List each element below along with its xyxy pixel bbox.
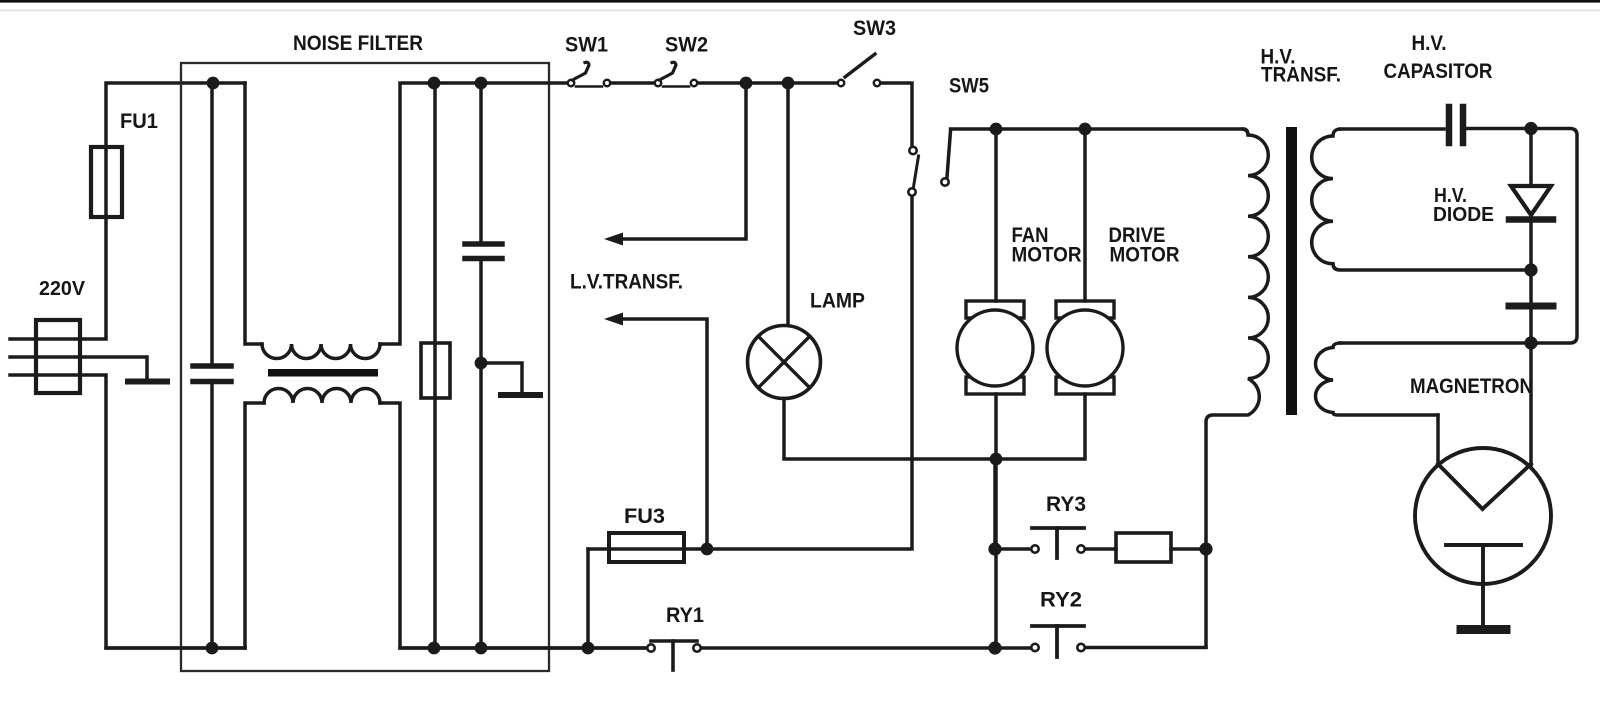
relay RY1 terminal left <box>647 644 654 651</box>
drive motor frame bottom <box>1056 377 1114 394</box>
svg-text:LAMP: LAMP <box>810 290 865 313</box>
wire choke bottom-right lead <box>380 403 646 648</box>
relay RY3 contact bar <box>1032 526 1084 530</box>
HV diode triangle <box>1511 186 1551 215</box>
svg-text:L.V.TRANSF.: L.V.TRANSF. <box>570 271 683 294</box>
220V plug body <box>36 320 80 393</box>
switch SW1 lever <box>573 62 590 80</box>
fan motor frame bottom <box>966 377 1024 394</box>
svg-text:H.V.: H.V. <box>1412 32 1447 55</box>
node junction motor rail fan <box>990 123 1003 136</box>
wire SW2 to SW3 <box>699 81 836 85</box>
capacitor C2 lead bottom <box>479 261 483 648</box>
resistor R2 body <box>1116 533 1171 562</box>
switch SW3 terminal left <box>838 80 844 86</box>
switch SW4 lever <box>914 156 919 187</box>
feedthrough capacitor bar <box>1509 303 1553 310</box>
relay RY3 terminal left <box>1031 545 1038 552</box>
svg-text:SW5: SW5 <box>949 75 989 98</box>
node junction LV transf branch top <box>740 77 753 90</box>
node junction bottom bus at x995 <box>988 641 1001 654</box>
node junction heater top rail <box>1524 336 1537 349</box>
wire choke bottom-left lead <box>245 403 264 648</box>
magnetron ground bar <box>1461 625 1506 634</box>
switch SW1 sag wire <box>576 85 602 88</box>
wire lamp bottom to motors neutral <box>784 394 1085 459</box>
feedthrough lead upper <box>1529 270 1533 302</box>
magnetron ground stem <box>1481 545 1485 625</box>
svg-text:TRANSF.: TRANSF. <box>1261 64 1341 87</box>
node junction secondary bottom <box>1524 263 1537 276</box>
node junction R1 top <box>428 77 441 90</box>
capacitor C2 lead top <box>479 83 483 241</box>
fan motor body <box>957 310 1033 386</box>
wire lamp top lead <box>786 83 790 326</box>
resistor R1 body <box>421 343 450 398</box>
HV transformer core <box>1286 127 1297 415</box>
wire RY2 to HV primary return <box>1086 646 1206 650</box>
node junction C2 bottom <box>475 642 488 655</box>
220V plug prong/wire top <box>10 83 245 339</box>
svg-text:MAGNETRON: MAGNETRON <box>1410 375 1533 398</box>
noise filter box <box>181 63 549 671</box>
wire RY3 to resistor R2 <box>1086 547 1116 551</box>
arrow wire to LV transformer lower <box>618 319 707 549</box>
wire R2 to HV primary return <box>1171 547 1206 551</box>
fuse FU3 body <box>609 533 684 562</box>
relay RY1 terminal right <box>693 644 700 651</box>
HV capacitor plates <box>1449 107 1463 143</box>
wire SW4 down to FU3 rail <box>588 197 912 549</box>
relay RY3 terminal right <box>1077 545 1084 552</box>
arrowhead lower <box>604 313 623 326</box>
220V plug prong/wire middle to ground <box>10 357 147 377</box>
choke core <box>268 369 378 377</box>
wire RY3 rail from x995 <box>995 459 1030 549</box>
relay RY2 terminal left <box>1031 644 1038 651</box>
bottom bus wire right segment <box>400 646 646 650</box>
svg-text:FU1: FU1 <box>120 110 158 133</box>
HV diode cathode bar <box>1509 216 1553 223</box>
magnetron body <box>1415 448 1551 584</box>
node junction HV primary return <box>1199 542 1212 555</box>
arrow wire to LV transformer upper <box>618 83 746 239</box>
drive motor frame top <box>1056 301 1114 318</box>
wire heater top lead <box>1340 341 1528 345</box>
switch SW5 terminal <box>941 178 948 185</box>
bottom bus wire left segment <box>106 646 245 650</box>
chassis ground bar in filter <box>501 392 540 398</box>
relay RY2 contact stem <box>1055 626 1059 657</box>
svg-text:SW1: SW1 <box>565 34 608 57</box>
switch SW4 terminal top <box>909 147 916 154</box>
node junction top of C1 line <box>207 77 220 90</box>
svg-text:DIODE: DIODE <box>1433 204 1494 226</box>
wire magnetron left lead <box>1436 415 1440 465</box>
node junction bottom of C1 line <box>206 642 219 655</box>
node junction lamp branch top <box>782 77 795 90</box>
wire choke top-left lead <box>245 83 262 344</box>
switch SW4 terminal bottom <box>908 188 915 195</box>
wire SW1 to SW2 <box>612 81 653 85</box>
node junction bottom bus at x588 <box>582 642 595 655</box>
fuse FU1 <box>91 147 122 217</box>
switch SW3 terminal right <box>874 80 880 86</box>
HV transformer primary winding <box>1206 129 1268 647</box>
svg-text:SW3: SW3 <box>853 17 896 40</box>
feedthrough lead lower <box>1529 310 1533 343</box>
switch SW2 terminal right <box>691 80 697 86</box>
choke L1 top winding <box>262 344 380 359</box>
wire capacitor to diode node <box>1466 129 1577 344</box>
wire to filter ground <box>481 363 522 392</box>
wire drive motor top lead <box>1083 129 1087 301</box>
lamp cross <box>759 337 810 388</box>
svg-text:FU3: FU3 <box>624 505 665 528</box>
HV diode anode lead <box>1529 129 1533 187</box>
switch SW2 lever <box>660 62 677 80</box>
svg-text:RY2: RY2 <box>1040 589 1082 612</box>
relay RY3 contact stem <box>1055 528 1059 558</box>
bottom bus wire RY1 to RY2 <box>702 646 1030 650</box>
svg-text:220V: 220V <box>39 278 86 300</box>
wire SW3 to interlock <box>882 83 912 145</box>
wire secondary top to capacitor <box>1340 127 1444 131</box>
magnetron cathode line <box>1446 543 1521 547</box>
switch SW1 terminal left <box>568 80 574 86</box>
node junction neutral at fan motor line <box>990 453 1003 466</box>
svg-text:RY3: RY3 <box>1046 493 1086 516</box>
node junction arrow wire on FU3 rail <box>701 543 714 556</box>
relay RY1 contact stem <box>671 641 675 670</box>
chassis ground bar at plug <box>128 379 167 385</box>
switch SW3 lever <box>845 54 875 77</box>
HV transformer heater winding <box>1315 343 1438 415</box>
capacitor C2 plates <box>465 244 502 259</box>
svg-text:MOTOR: MOTOR <box>1110 244 1180 267</box>
svg-text:MOTOR: MOTOR <box>1012 244 1082 267</box>
svg-text:CAPASITOR: CAPASITOR <box>1384 60 1493 83</box>
capacitor C1 plates <box>193 366 231 382</box>
switch SW2 terminal left <box>655 80 661 86</box>
wire fan motor top lead <box>994 129 998 301</box>
node junction RY3 rail left <box>988 542 1001 555</box>
node junction motor rail drive <box>1079 123 1092 136</box>
drive motor body <box>1047 310 1123 386</box>
node junction diode top <box>1524 122 1537 135</box>
relay RY2 contact bar <box>1032 624 1084 628</box>
relay RY1 contact bar <box>651 639 697 643</box>
resistor R1 vertical line <box>433 83 437 648</box>
scan top border <box>0 0 1600 3</box>
svg-text:NOISE FILTER: NOISE FILTER <box>293 32 423 55</box>
220V plug prong/wire bottom <box>10 375 245 648</box>
svg-text:RY1: RY1 <box>666 604 704 627</box>
wire choke top-right lead <box>380 83 568 344</box>
relay RY2 terminal right <box>1077 644 1084 651</box>
lamp body <box>748 326 821 399</box>
HV diode cathode lead <box>1529 222 1533 270</box>
fan motor frame top <box>966 301 1024 318</box>
wire SW5 to motor rail <box>947 129 1243 177</box>
node junction R1 bottom <box>428 642 441 655</box>
svg-text:SW2: SW2 <box>665 34 708 57</box>
switch SW2 sag wire <box>663 85 689 88</box>
wire FU3 left drop to bottom bus <box>586 549 590 648</box>
magnetron anode V <box>1438 464 1531 509</box>
capacitor C1 lead bottom <box>210 384 214 648</box>
node junction at filter ground tap <box>475 357 488 370</box>
switch SW1 terminal right <box>604 80 610 86</box>
arrowhead upper <box>604 233 623 246</box>
node junction C2 top <box>475 77 488 90</box>
wire fan motor bottom lead <box>994 394 998 648</box>
HV transformer secondary winding <box>1312 129 1528 270</box>
choke L1 bottom winding <box>264 389 380 404</box>
capacitor C1 lead top <box>210 83 214 363</box>
wire magnetron right lead <box>1529 343 1533 465</box>
